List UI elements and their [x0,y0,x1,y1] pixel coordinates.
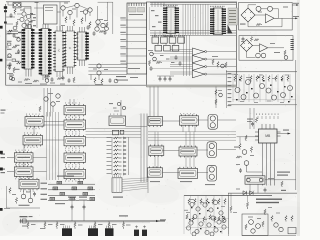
driver wires [265,179,296,181]
capacitor C4 [104,30,107,35]
A5 parts [9,188,11,194]
parts left of cluster [14,9,16,15]
mid C bus [141,114,147,183]
gate row 1 [152,37,159,43]
op-amp out dots [205,51,207,53]
pot pair P1 [208,115,218,130]
right vertical rail [295,60,297,190]
supply components [243,191,247,195]
transistor Q12 [96,20,100,24]
IC U1 (DIP16) [22,29,35,70]
wires K1 [36,2,38,28]
transistor Q9 [75,3,79,7]
parts x110 y24 [105,27,109,31]
transistor Q10 [83,10,87,14]
pot pair P3 [207,165,217,181]
resistor R4 [65,17,67,24]
row C wiring [163,121,180,173]
osc block A1 [25,115,44,127]
bus between U6 U7 [183,4,208,35]
left edge tick A2 [0,59,2,62]
transistor Q6 [27,24,31,28]
osc block B5 [64,168,86,180]
block K1 [44,5,58,24]
block M3 [149,145,164,157]
left edge tick D1 [0,208,3,211]
cluster A labels [64,3,68,4]
wire node x31 [30,7,32,29]
boxes under xtal [113,130,119,135]
pin ticks above MB [255,114,258,115]
left section border [6,2,147,85]
mid right parts [212,59,214,65]
mid-right col wires [250,108,254,129]
IC U3 (DIP14) [53,31,65,72]
block M5 [148,166,163,177]
osc block A4 [14,165,33,177]
top bus wires [97,6,99,20]
parts below U5 [94,78,96,84]
left edge tick C2 [0,168,3,171]
block M2 [180,114,199,126]
cluster A wires [62,10,64,16]
block M6 [178,167,198,179]
meter box A2 [239,36,293,61]
IC U2 (DIP18) [39,29,52,76]
parts col x30 [30,13,33,15]
osc block B2 [64,119,86,131]
transistor Q2 [26,14,30,18]
mid section bottom band [147,85,237,88]
IC U7 (dark DIP) [210,8,226,35]
xtal box X1 [109,116,126,126]
op-amp wires [170,50,193,75]
supply rail [228,192,297,194]
hang parts below mid [215,90,217,96]
transistor Q13 [101,23,105,27]
osc block B4 [64,152,86,164]
left edge tick A1 [0,26,3,29]
capacitor C5 [87,25,90,30]
transistor Q14 [95,27,99,31]
resistor R9 [106,22,108,28]
resistor R8 [99,30,105,32]
connector fan J3 [112,178,122,193]
timing waveforms [57,176,74,177]
pot pair P2 [207,142,217,158]
supply text [256,199,282,200]
wires U5 to J2 [88,65,127,75]
IC U4 (DIP12) [64,31,77,67]
osc block B3 [64,135,86,147]
transistor Q3 [20,17,24,21]
mid wires to opamps [152,54,193,69]
analog band [226,71,297,73]
resistor R6 [81,18,83,25]
MB left parts [239,144,241,150]
gate wires [155,34,179,38]
parts column left of U1 [8,30,13,32]
margin label y110 [1,110,6,111]
parts above xtal [117,102,120,105]
pin labels U6 [162,5,165,6]
block M4 [179,146,197,158]
terminal strip J2 [127,3,147,74]
left edge tick C1 [0,151,3,154]
transistor Q11 [88,8,92,12]
IC U5 (DIP12) [78,32,89,60]
cluster wires [24,8,31,12]
left border ticks [4,6,7,9]
oscillator group G1 [13,3,21,8]
transistor Q7 [61,6,65,10]
transistor Q8 [68,10,72,14]
mid small parts [150,52,154,56]
resistor R7 [89,22,91,29]
wires above DIPs [26,24,31,29]
labels row C [150,181,160,182]
driver box DR1 [245,176,265,184]
block M1 [148,117,163,128]
scan tint right edge [297,0,300,236]
marks below left column [9,75,14,76]
op-amp U8b [193,56,205,63]
input arrow [156,220,160,222]
osc block A3 [14,151,33,163]
audio components [27,222,29,228]
pin labels U7 [209,6,212,7]
capacitor trio [159,77,162,82]
op-amp U8d [193,71,205,78]
wire col2 up [70,99,74,106]
capacitor C3 [93,31,96,36]
op-amp U8c [193,63,205,70]
label under U6 [164,36,173,37]
labels below J2 [116,76,126,77]
parts row y76 extras [44,75,50,77]
wires below DIPs [26,69,31,77]
gate row 2 [155,45,162,51]
mid section border [147,2,237,87]
gray table TB1 [228,8,238,25]
gate row 1 labels [151,35,154,36]
audio IC blocks [62,228,72,236]
arrow right of MB [277,133,290,135]
dark wedge [228,25,233,34]
IC MB [259,129,278,143]
IC U6 (dark DIP) [163,7,179,34]
left margin labels [1,154,6,155]
bus wires top mid [150,3,236,5]
transistor Q5 [22,23,26,27]
left col1-col2 wires [47,112,59,180]
divider ladder [114,137,122,139]
audio labels [20,216,28,217]
scan mottle [88,107,164,137]
rectifier box A1 [239,2,293,30]
left border area parts [9,62,12,67]
resistor R5 [73,20,75,27]
op-amp U8a [193,48,205,55]
transistor Q4 [25,20,29,24]
power amp cluster [184,194,272,196]
MB top parts [251,122,254,127]
osc block A5 [19,178,39,190]
rail left plug [23,219,27,223]
transistor Q1 [22,12,26,16]
bottom-left parts row [24,78,30,80]
audio caps top [71,205,74,210]
audio rail [20,220,166,222]
osc block A2 [23,134,43,146]
cluster labels [20,10,25,11]
osc parts above col1 [44,97,48,101]
mid left parts [151,10,155,11]
osc block B1 [64,104,86,116]
